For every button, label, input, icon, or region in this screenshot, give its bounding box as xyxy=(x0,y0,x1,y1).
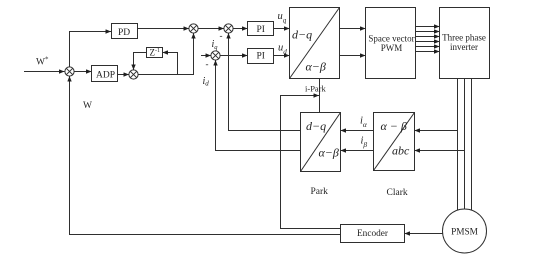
block PI1 xyxy=(248,22,274,36)
svg-text:PMSM: PMSM xyxy=(451,227,478,237)
svg-text:α−β: α−β xyxy=(319,146,339,160)
svg-text:α − β: α − β xyxy=(381,119,407,133)
svg-text:W: W xyxy=(83,101,92,111)
wire Z-1 output to S2 top xyxy=(134,53,147,70)
svg-text:PI: PI xyxy=(257,52,265,62)
block Encoder xyxy=(341,225,405,243)
block PD xyxy=(112,24,138,39)
block Z-1 xyxy=(147,48,163,58)
svg-text:abc: abc xyxy=(392,144,410,158)
block Clark transform xyxy=(374,113,415,171)
svg-text:Clark: Clark xyxy=(387,188,408,198)
block Park transform xyxy=(301,113,341,172)
svg-text:PWM: PWM xyxy=(381,43,403,53)
wire S3 to S4 xyxy=(198,28,224,30)
wire S5 to PI2 xyxy=(220,55,247,57)
wire inverter phase a xyxy=(457,79,459,211)
wire Park iq feedback to S4 xyxy=(229,33,301,130)
summing junction S2 xyxy=(129,70,138,79)
svg-text:Three phase: Three phase xyxy=(442,33,486,43)
wire Clark to Park i alpha xyxy=(341,130,374,132)
wire u_q PI1 to iPark xyxy=(274,28,290,30)
svg-text:Space vector: Space vector xyxy=(368,34,414,44)
wire W feedback encoder to S1 xyxy=(70,76,341,234)
wire ADP to S2 xyxy=(118,74,129,76)
wire iPark to SVPWM top xyxy=(340,28,366,30)
wire PWM to inverter line 4 xyxy=(416,41,440,43)
wire PWM to inverter line 1 xyxy=(416,26,440,28)
svg-text:Encoder: Encoder xyxy=(357,229,389,239)
block iPark inverse park transform xyxy=(290,8,340,79)
wire PMSM to Encoder xyxy=(405,233,443,235)
block ADP xyxy=(92,66,118,82)
svg-text:ADP: ADP xyxy=(96,71,115,81)
summing junction S5 xyxy=(211,51,220,60)
block Space vector PWM xyxy=(366,8,416,79)
wire u_d PI2 to iPark xyxy=(274,55,290,57)
summing junction S4 xyxy=(224,24,233,33)
svg-text:α−β: α−β xyxy=(306,60,326,74)
motor PMSM circle xyxy=(443,209,487,253)
svg-text:PD: PD xyxy=(118,28,130,38)
svg-text:d−q: d−q xyxy=(292,28,312,42)
wire Park id feedback to S5 xyxy=(216,60,301,150)
svg-text:-: - xyxy=(220,31,223,41)
wire Clark to Park i beta xyxy=(341,150,374,152)
wire phase b tap to Clark xyxy=(415,150,465,152)
wire PWM to inverter line 3 xyxy=(416,36,440,38)
wire S2 output up to S3 xyxy=(138,33,193,74)
wire inverter phase b xyxy=(464,79,466,210)
wire theta from encoder xyxy=(281,96,341,229)
wire branch to Z-1 input xyxy=(163,53,178,75)
wire PD to S3 xyxy=(138,28,189,30)
wire PWM to inverter line 2 xyxy=(416,31,440,33)
svg-text:inverter: inverter xyxy=(450,42,478,52)
wire S1 to ADP xyxy=(74,71,91,73)
wire iPark to SVPWM bottom xyxy=(340,55,366,57)
wire PWM to inverter line 5 xyxy=(416,46,440,48)
svg-text:Park: Park xyxy=(311,187,329,197)
wire S4 to PI1 xyxy=(233,28,247,30)
summing junction S1 xyxy=(65,67,74,76)
wire phase a tap to Clark xyxy=(415,130,458,132)
wire theta iPark to Park xyxy=(319,79,321,113)
svg-text:PI: PI xyxy=(257,25,265,35)
block PI2 xyxy=(248,49,274,64)
svg-text:d−q: d−q xyxy=(306,119,326,133)
svg-text:i-Park: i-Park xyxy=(305,84,327,94)
wire inverter phase c xyxy=(471,79,473,211)
svg-text:-: - xyxy=(206,59,209,69)
wire PWM to inverter line 6 xyxy=(416,51,440,53)
wire W* input xyxy=(24,71,64,73)
wire S1 to PD xyxy=(70,32,112,67)
wire id reference stub to S5 xyxy=(201,55,211,57)
block Three phase inverter xyxy=(440,8,490,79)
summing junction S3 xyxy=(189,24,198,33)
